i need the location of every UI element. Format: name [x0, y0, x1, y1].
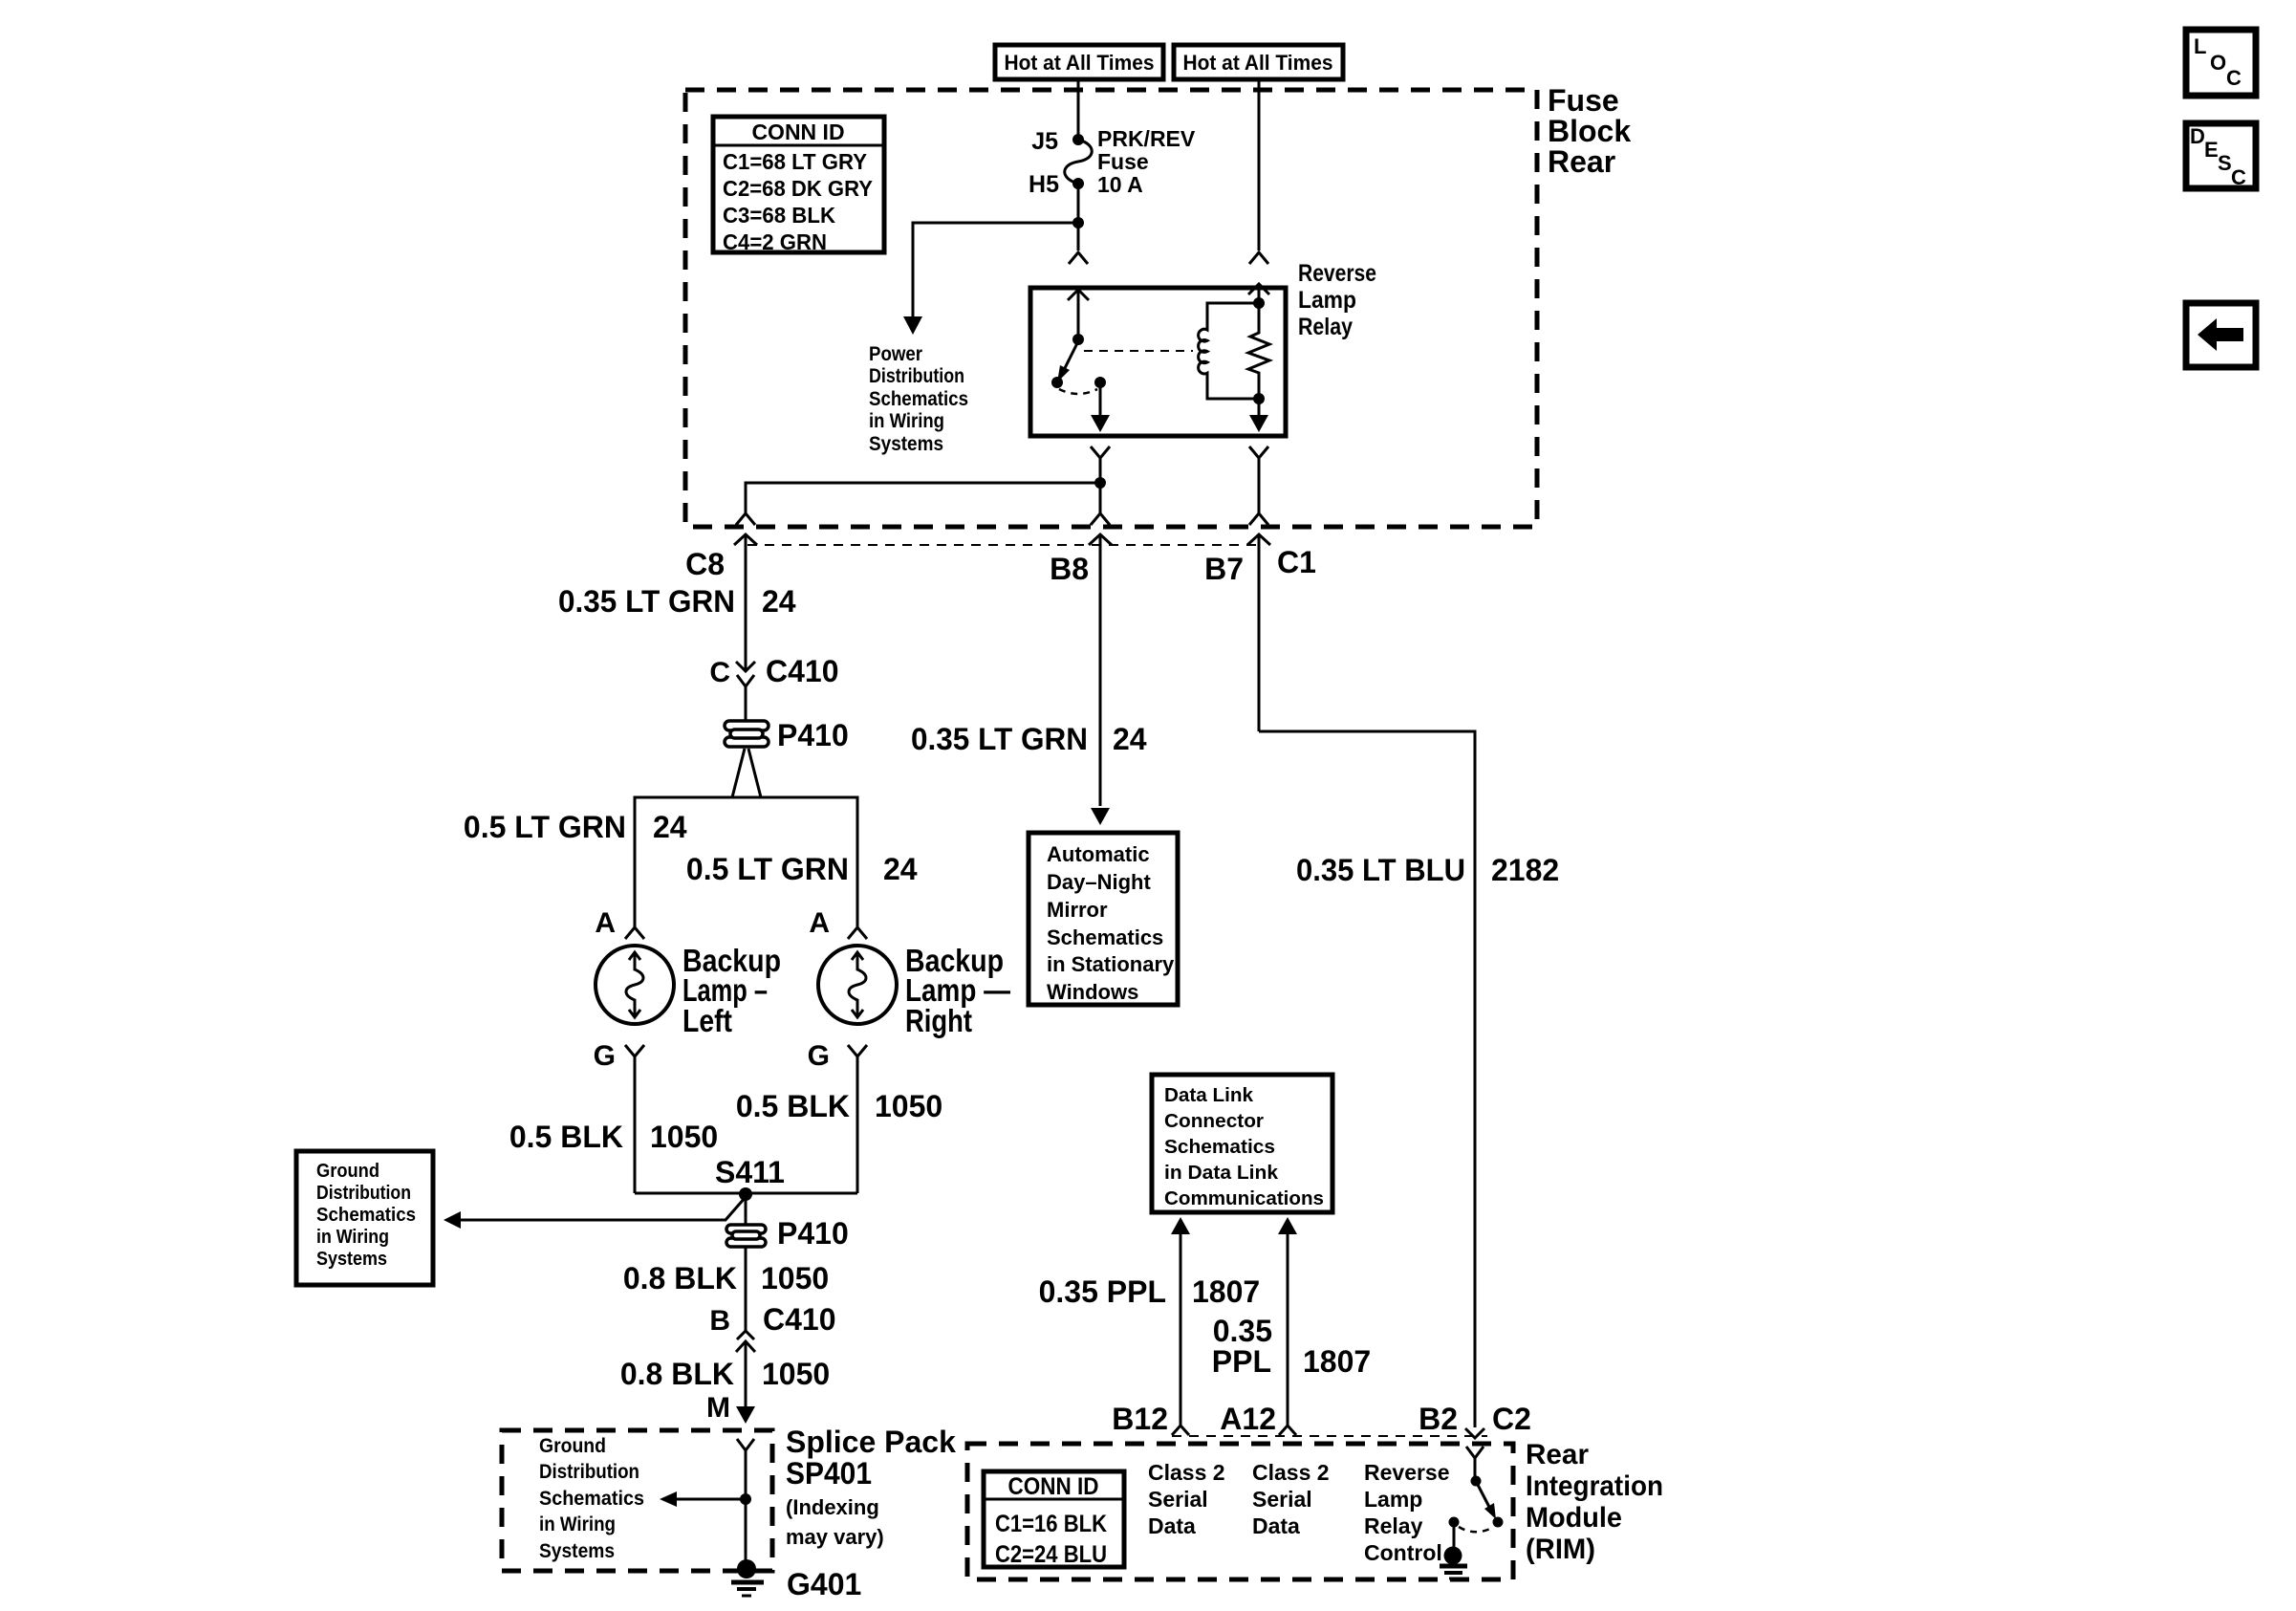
svg-text:M: M — [706, 1392, 730, 1424]
svg-text:Windows: Windows — [1047, 980, 1138, 1004]
split legs from P410 to lamp bus — [732, 749, 761, 797]
svg-text:Schematics: Schematics — [1164, 1137, 1275, 1158]
svg-text:C8: C8 — [685, 547, 725, 581]
Ground Distribution note (in splice pack) — [539, 1435, 644, 1562]
svg-text:Hot at All Times: Hot at All Times — [1183, 51, 1333, 75]
DESC nav box — [2186, 123, 2256, 189]
svg-text:0.35 PPL: 0.35 PPL — [1039, 1274, 1166, 1309]
Fuse Block Rear dashed enclosure — [685, 90, 1537, 527]
relay resistor — [1248, 303, 1269, 399]
svg-text:Class 2: Class 2 — [1252, 1460, 1330, 1485]
svg-text:Mirror: Mirror — [1047, 898, 1108, 922]
relay actuate dashed link — [1084, 350, 1193, 352]
pass-through grommet P410 — [725, 721, 769, 747]
Data Link Connector note box — [1152, 1075, 1332, 1212]
in-line connector row (thin dashed) — [747, 544, 1260, 546]
svg-text:in Data Link: in Data Link — [1164, 1163, 1279, 1184]
svg-text:C1=16 BLK: C1=16 BLK — [995, 1511, 1107, 1537]
svg-text:B7: B7 — [1204, 552, 1244, 586]
svg-text:Systems: Systems — [316, 1249, 387, 1270]
svg-text:0.35: 0.35 — [1213, 1314, 1272, 1348]
svg-text:may vary): may vary) — [786, 1525, 884, 1549]
svg-text:Ground: Ground — [539, 1435, 606, 1457]
Splice Pack SP401 dashed box — [502, 1430, 772, 1571]
arrow into splice pack — [736, 1406, 755, 1424]
svg-text:Data: Data — [1148, 1513, 1196, 1538]
svg-text:G: G — [808, 1040, 830, 1072]
svg-text:CONN ID: CONN ID — [751, 120, 844, 144]
svg-text:1050: 1050 — [762, 1357, 830, 1391]
Reverse Lamp Relay Control label — [1364, 1460, 1450, 1565]
relay switch pivot — [1072, 334, 1084, 345]
svg-text:Right: Right — [905, 1003, 972, 1038]
fork at C1 fuse block exit — [1249, 513, 1268, 525]
svg-text:2182: 2182 — [1491, 853, 1559, 887]
connector fork into relay (left wire) — [1069, 252, 1088, 264]
svg-text:C2=24 BLU: C2=24 BLU — [995, 1541, 1107, 1568]
svg-text:in Wiring: in Wiring — [316, 1227, 389, 1248]
fork at right lamp pin G — [848, 1045, 867, 1193]
RIM switch contact left — [1449, 1517, 1460, 1528]
component label Backup Lamp - Left — [682, 943, 781, 1038]
svg-text:CONN ID: CONN ID — [1008, 1473, 1099, 1500]
svg-text:PRK/REV: PRK/REV — [1097, 126, 1196, 151]
wire C1 to RIM C2 — [1259, 731, 1475, 1427]
CONN ID table (RIM) — [984, 1471, 1124, 1568]
svg-text:in Stationary: in Stationary — [1047, 952, 1175, 976]
svg-text:Communications: Communications — [1164, 1188, 1324, 1209]
svg-text:Control: Control — [1364, 1540, 1442, 1565]
svg-text:S: S — [2218, 151, 2232, 175]
junction node on fused feed — [1072, 217, 1084, 229]
svg-text:C3=68 BLK: C3=68 BLK — [723, 203, 835, 228]
svg-text:0.8 BLK: 0.8 BLK — [620, 1357, 734, 1391]
svg-text:Distribution: Distribution — [316, 1183, 411, 1204]
Splice Pack SP401 label — [786, 1425, 956, 1549]
wire tap to power distribution arrow — [913, 223, 1078, 326]
svg-text:A: A — [595, 907, 616, 939]
svg-text:0.35 LT GRN: 0.35 LT GRN — [911, 722, 1088, 756]
svg-text:A: A — [809, 907, 830, 939]
arrow to ground distribution note — [677, 1498, 746, 1501]
svg-text:Ground: Ground — [316, 1161, 379, 1182]
fork at right lamp pin A — [848, 927, 867, 939]
ground return bus — [635, 1192, 857, 1195]
svg-text:(Indexing: (Indexing — [786, 1495, 879, 1519]
svg-text:Left: Left — [682, 1003, 732, 1038]
ground G401 — [731, 1559, 764, 1596]
Class 2 Serial Data (A12) — [1252, 1460, 1330, 1538]
svg-text:0.5 BLK: 0.5 BLK — [509, 1120, 623, 1154]
svg-text:A12: A12 — [1220, 1402, 1276, 1436]
junction node to C8 rail — [1094, 477, 1106, 489]
svg-text:C410: C410 — [766, 654, 839, 688]
fork at C8 fuse block exit — [736, 513, 755, 525]
component label Backup Lamp - Right — [905, 943, 1010, 1038]
Hot at All Times label right — [1174, 45, 1343, 79]
svg-text:0.35 LT BLU: 0.35 LT BLU — [1296, 853, 1465, 887]
svg-text:in Wiring: in Wiring — [539, 1513, 616, 1535]
svg-text:B12: B12 — [1112, 1402, 1168, 1436]
svg-text:C: C — [2231, 165, 2246, 189]
svg-text:Serial: Serial — [1252, 1487, 1312, 1512]
LOC nav box (top right) — [2186, 30, 2256, 96]
svg-text:10 A: 10 A — [1097, 172, 1143, 197]
svg-text:P410: P410 — [777, 1216, 849, 1251]
svg-text:24: 24 — [1113, 722, 1147, 756]
wire B12 class 2 serial data — [1171, 1217, 1190, 1234]
svg-text:L: L — [2194, 34, 2206, 58]
in-line connector row at RIM (thin dashed) — [1172, 1435, 1487, 1437]
svg-text:E: E — [2204, 138, 2219, 162]
svg-text:J5: J5 — [1031, 128, 1058, 155]
wire hot feed right — [1258, 79, 1261, 250]
svg-text:Lamp: Lamp — [1298, 287, 1356, 314]
relay output wire (coil side C1) — [1258, 399, 1261, 417]
svg-text:0.5 LT GRN: 0.5 LT GRN — [464, 810, 626, 844]
rail from B8 wire to C8 drop — [746, 483, 1100, 513]
svg-text:PPL: PPL — [1212, 1344, 1271, 1379]
svg-text:B8: B8 — [1050, 552, 1089, 586]
svg-text:Systems: Systems — [539, 1540, 615, 1562]
svg-text:Hot at All Times: Hot at All Times — [1005, 51, 1155, 75]
svg-text:Splice Pack: Splice Pack — [786, 1425, 956, 1459]
svg-text:Relay: Relay — [1364, 1513, 1423, 1538]
svg-text:O: O — [2210, 51, 2226, 75]
connector fork below relay (C1 wire) — [1249, 446, 1268, 513]
arrow into mirror note — [1091, 808, 1110, 825]
in-line connector C410 (arrow + fork) — [736, 662, 755, 671]
svg-text:24: 24 — [653, 810, 687, 844]
svg-text:SP401: SP401 — [786, 1456, 872, 1491]
backup lamp right (bulb) — [818, 946, 897, 1024]
svg-text:Class 2: Class 2 — [1148, 1460, 1225, 1485]
svg-text:C2: C2 — [1492, 1402, 1531, 1436]
svg-text:G401: G401 — [787, 1567, 861, 1601]
coil node bottom — [1253, 393, 1265, 404]
svg-text:C1=68 LT GRY: C1=68 LT GRY — [723, 149, 867, 174]
Reverse Lamp Relay title — [1298, 260, 1376, 340]
svg-text:Automatic: Automatic — [1047, 842, 1150, 866]
Automatic Day-Night Mirror note box — [1029, 833, 1178, 1005]
CONN ID table (fuse block) — [713, 117, 884, 254]
connector fork below relay (B8 wire) — [1091, 446, 1110, 513]
svg-text:Relay: Relay — [1298, 314, 1353, 340]
svg-text:Fuse: Fuse — [1097, 149, 1149, 174]
internal ground (RIM) — [1440, 1547, 1467, 1579]
svg-text:Day–Night: Day–Night — [1047, 870, 1151, 894]
relay output wire (switch side B8) — [1099, 382, 1102, 417]
svg-text:G: G — [594, 1040, 616, 1072]
svg-text:C410: C410 — [763, 1302, 836, 1337]
svg-text:0.5 LT GRN: 0.5 LT GRN — [686, 852, 849, 886]
svg-text:Rear: Rear — [1526, 1439, 1589, 1470]
tap wire and arrow to ground distribution note — [461, 1197, 746, 1220]
svg-text:1807: 1807 — [1192, 1274, 1260, 1309]
svg-text:Connector: Connector — [1164, 1111, 1264, 1132]
wire fuse to junction — [1077, 184, 1080, 250]
svg-text:Schematics: Schematics — [316, 1205, 416, 1226]
fork at B8 fuse block exit — [1091, 513, 1110, 525]
svg-text:Serial: Serial — [1148, 1487, 1208, 1512]
wire contact to internal ground — [1453, 1522, 1456, 1549]
fork at left lamp pin G — [625, 1045, 644, 1193]
svg-text:Distribution: Distribution — [869, 365, 964, 387]
wire below P410 — [745, 1246, 747, 1331]
Rear Integration Module dashed box — [967, 1444, 1513, 1579]
svg-text:Data Link: Data Link — [1164, 1085, 1254, 1106]
relay coil — [1199, 303, 1259, 399]
svg-text:Module: Module — [1526, 1502, 1622, 1534]
wire hot feed left (from Hot at All Times to fuse J5) — [1077, 79, 1080, 140]
connector arrow below boundary C1 — [1247, 534, 1270, 731]
svg-text:in Wiring: in Wiring — [869, 410, 944, 432]
svg-text:C1: C1 — [1277, 545, 1316, 579]
coil node top — [1253, 297, 1265, 309]
pass-through grommet P410 (lower) — [726, 1225, 766, 1247]
svg-text:Schematics: Schematics — [869, 388, 968, 410]
svg-text:Rear: Rear — [1548, 144, 1615, 179]
connector arrow below boundary C8 — [734, 534, 757, 669]
lamp feed bus rails — [635, 797, 857, 927]
wire A12 class 2 serial data — [1278, 1217, 1297, 1234]
svg-text:1050: 1050 — [875, 1089, 942, 1123]
svg-text:S411: S411 — [715, 1155, 785, 1189]
Fuse Block Rear title — [1548, 83, 1631, 179]
svg-text:Integration: Integration — [1526, 1470, 1663, 1502]
relay switch arm — [1064, 341, 1078, 370]
splice node S411 — [739, 1187, 752, 1201]
wire S411 to P410 — [745, 1194, 747, 1225]
svg-text:C: C — [2226, 66, 2242, 90]
svg-text:Schematics: Schematics — [539, 1488, 644, 1510]
svg-text:C: C — [709, 657, 730, 688]
svg-text:B: B — [709, 1305, 730, 1337]
Hot at All Times label left — [995, 45, 1163, 79]
RIM switch arm — [1478, 1485, 1491, 1511]
svg-text:Power: Power — [869, 343, 922, 365]
Power Distribution note text — [869, 343, 968, 455]
svg-text:Systems: Systems — [869, 433, 943, 455]
svg-text:Block: Block — [1548, 114, 1631, 148]
fork at left lamp pin A — [625, 927, 644, 939]
svg-text:B2: B2 — [1419, 1402, 1458, 1436]
in-line connector C410 lower (fork + arrow) — [737, 1331, 754, 1339]
svg-text:Distribution: Distribution — [539, 1461, 639, 1483]
svg-text:1050: 1050 — [761, 1261, 829, 1295]
svg-text:24: 24 — [883, 852, 918, 886]
svg-text:D: D — [2190, 124, 2205, 148]
fork below splice pack boundary — [737, 1439, 754, 1560]
svg-text:0.5 BLK: 0.5 BLK — [736, 1089, 850, 1123]
relay contact left — [1051, 377, 1063, 388]
svg-text:(RIM): (RIM) — [1526, 1534, 1595, 1565]
RIM switch contact right — [1493, 1517, 1504, 1528]
svg-text:Data: Data — [1252, 1513, 1300, 1538]
svg-text:0.8 BLK: 0.8 BLK — [623, 1261, 737, 1295]
Ground Distribution note box (left) — [296, 1151, 433, 1285]
svg-text:P410: P410 — [777, 718, 849, 752]
backup lamp left (bulb) — [596, 946, 674, 1024]
svg-text:24: 24 — [762, 584, 796, 619]
connector chevron inside relay (right wire) — [1248, 284, 1269, 303]
fork below RIM boundary at C2 — [1466, 1447, 1484, 1476]
RIM switch pivot — [1471, 1476, 1482, 1487]
svg-text:C2=68 DK GRY: C2=68 DK GRY — [723, 176, 873, 201]
connector arrow into RIM at C2 — [1465, 1428, 1484, 1438]
fuse PRK/REV J5-H5 — [1065, 134, 1093, 189]
switch travel dashed arc — [1059, 389, 1097, 394]
svg-text:C4=2 GRN: C4=2 GRN — [723, 229, 827, 254]
splice junction node — [740, 1493, 751, 1505]
connector arrow below boundary B8 — [1089, 534, 1112, 806]
connector chevron inside relay (left wire) — [1068, 290, 1089, 339]
connector fork into relay (right wire) — [1249, 252, 1268, 264]
fuse value label PRK/REV Fuse 10 A — [1097, 126, 1196, 197]
Reverse Lamp Relay box — [1030, 288, 1286, 436]
back arrow nav box — [2186, 303, 2256, 367]
svg-text:1807: 1807 — [1303, 1344, 1371, 1379]
svg-text:Fuse: Fuse — [1548, 83, 1619, 118]
Rear Integration Module title — [1526, 1439, 1663, 1565]
svg-text:Reverse: Reverse — [1364, 1460, 1450, 1485]
RIM switch travel dashed arc — [1459, 1527, 1492, 1532]
svg-text:1050: 1050 — [650, 1120, 718, 1154]
Class 2 Serial Data (B12) — [1148, 1460, 1225, 1538]
svg-text:Schematics: Schematics — [1047, 925, 1163, 949]
svg-text:0.35 LT GRN: 0.35 LT GRN — [558, 584, 735, 619]
relay contact right (output) — [1094, 377, 1106, 388]
svg-text:Reverse: Reverse — [1298, 260, 1376, 287]
svg-text:H5: H5 — [1029, 171, 1059, 198]
svg-text:Lamp: Lamp — [1364, 1487, 1422, 1512]
